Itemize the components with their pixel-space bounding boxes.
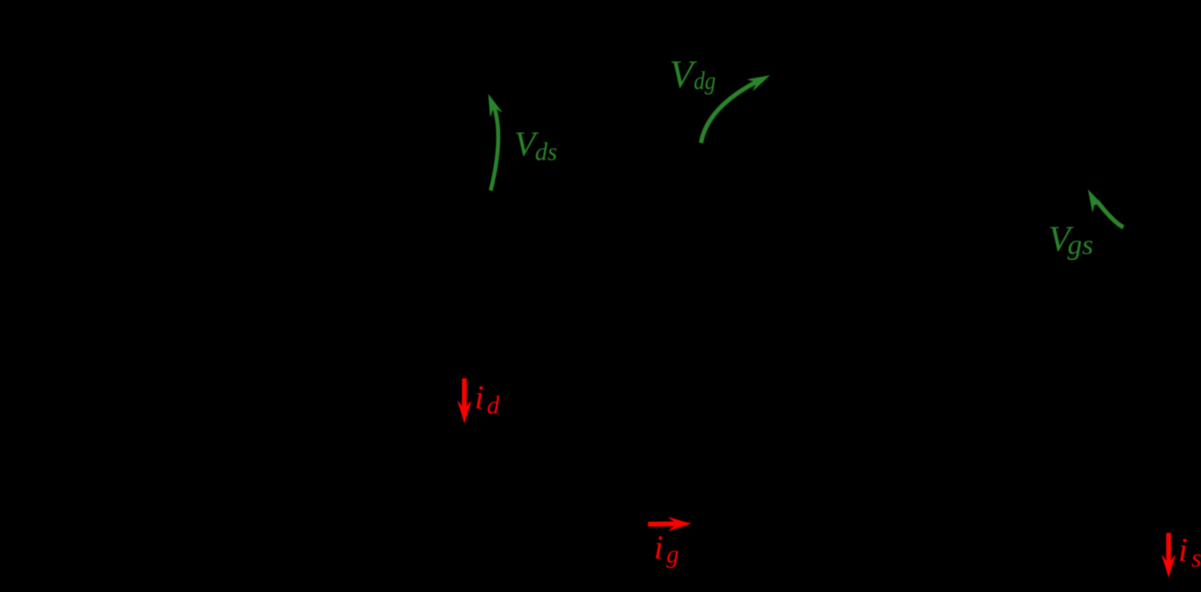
- svg-text:g: g: [666, 542, 679, 569]
- svg-text:gs: gs: [1068, 229, 1094, 261]
- svg-text:d: d: [487, 392, 500, 419]
- svg-text:i: i: [475, 379, 484, 416]
- svg-text:s: s: [1191, 544, 1201, 573]
- svg-text:ds: ds: [535, 139, 557, 166]
- svg-text:i: i: [654, 529, 663, 566]
- svg-text:i: i: [1178, 532, 1187, 569]
- svg-text:dg: dg: [694, 68, 716, 95]
